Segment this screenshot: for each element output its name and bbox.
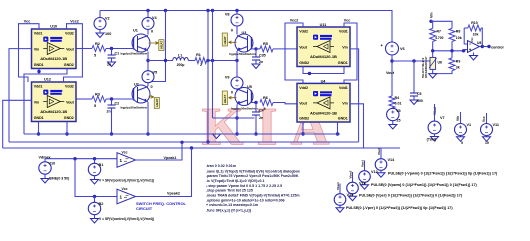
- svg-text:NTCG20WH473J1?: NTCG20WH473J1?: [425, 56, 428, 78]
- svg-text:V12: V12: [371, 170, 378, 174]
- svg-text:HEAT: HEAT: [223, 95, 227, 103]
- svg-text:C5: C5: [417, 92, 422, 96]
- svg-text:GND2: GND2: [64, 116, 74, 120]
- resistor R10: [464, 27, 468, 29]
- svg-text:.func SF(x,y,z) {if (x<1,y,z): .func SF(x,y,z) {if (x<1,y,z)}: [206, 208, 252, 212]
- voltage source V5: [142, 71, 154, 83]
- wire U10 GND loop: [24, 69, 39, 135]
- svg-text:.param Tinit=75 Vpwm=2 Vper=5: .param Tinit=75 Vpwm=2 Vper=5 Fsw1=50K F…: [206, 174, 299, 178]
- wire Vcc2 to U11 Vdd2: [285, 23, 303, 83]
- svg-text:control: control: [491, 45, 504, 49]
- wire U6 R9 bottom to gnd: [433, 69, 452, 73]
- svg-text:Vout: Vout: [386, 71, 395, 75]
- svg-text:GND1: GND1: [34, 63, 44, 67]
- svg-text:5: 5: [94, 54, 96, 58]
- svg-text:IrgpIpc50wStwhrm: IrgpIpc50wStwhrm: [121, 106, 148, 110]
- ground opamp: [473, 53, 475, 56]
- svg-text:PULSE(0 {Vper} 0 {1/(2*Fsw2)}: PULSE(0 {Vper} 0 {1/(2*Fsw2)} {1/(2*Fsw2…: [359, 193, 463, 197]
- svg-text:HEAT: HEAT: [160, 41, 164, 49]
- svg-text:R6: R6: [263, 96, 268, 100]
- wire U11 Vin feedback: [350, 49, 359, 142]
- svg-text:2: 2: [200, 63, 202, 67]
- svg-text:Vin: Vin: [342, 45, 348, 49]
- svg-text:Vout: Vout: [299, 45, 308, 49]
- voltage source V9: [231, 77, 243, 89]
- wire divider node: [432, 42, 434, 58]
- svg-text:C4: C4: [259, 109, 264, 113]
- voltage source V3: [387, 108, 399, 120]
- svg-text:Vcc: Vcc: [344, 19, 351, 23]
- svg-text:ADuM4120-1B: ADuM4120-1B: [310, 110, 337, 115]
- svg-text:CIRCUIT: CIRCUIT: [136, 206, 153, 211]
- svg-text:5: 5: [264, 107, 266, 111]
- svg-text:U10: U10: [50, 25, 57, 29]
- svg-text:Vdd1: Vdd1: [34, 32, 43, 36]
- thermistor U6: [430, 57, 436, 69]
- svg-text:R1: R1: [196, 53, 201, 57]
- svg-text:15: 15: [485, 141, 489, 145]
- svg-text:C3: C3: [259, 54, 264, 58]
- svg-text:SINE(0 3 50): SINE(0 3 50): [49, 176, 69, 180]
- capacitor C4: [255, 103, 257, 113]
- svg-text:.meas TRAN deltaT FIND V(Topd): .meas TRAN deltaT FIND V(Topd)-V(Tinitia…: [206, 194, 300, 198]
- svg-text:B1: B1: [99, 163, 104, 167]
- svg-text:Vth: Vth: [456, 116, 460, 121]
- svg-text:.options gmin=1e-10 abstol=1e-: .options gmin=1e-10 abstol=1e-10 reltol=…: [206, 199, 285, 203]
- svg-text:Vout: Vout: [66, 47, 75, 51]
- svg-text:Vdd2: Vdd2: [65, 85, 74, 89]
- svg-text:IrgpIpc50wStwhrm: IrgpIpc50wStwhrm: [231, 106, 258, 110]
- svg-text:C2: C2: [115, 102, 120, 106]
- wire U12 GND pins to bus: [38, 122, 40, 135]
- svg-text:5: 5: [461, 141, 463, 145]
- wire R2 to U1 gate: [106, 48, 134, 50]
- wire U12 Vin feedback: [3, 100, 32, 148]
- voltage source V2: [99, 11, 101, 18]
- svg-text:0: 0: [231, 91, 233, 95]
- voltage source V8: [236, 11, 238, 15]
- wire Vout to thermal block: [392, 60, 430, 62]
- resistor R3: [76, 98, 92, 100]
- wire R3 to U2 gate: [106, 98, 134, 100]
- svg-text:ADuM4120-1B: ADuM4120-1B: [40, 56, 67, 61]
- svg-text:Vcc: Vcc: [470, 37, 474, 42]
- svg-text:Vdd1: Vdd1: [339, 86, 348, 90]
- wire U4 GND pins to bus: [302, 122, 304, 134]
- svg-text:V2: V2: [105, 17, 110, 21]
- svg-text:V = SF(V(control),V(Vmr1),V(Vm: V = SF(V(control),V(Vmr1),V(Vmr1)): [99, 179, 154, 183]
- wire Vcc2 to U10 Vdd2: [64, 24, 83, 82]
- heat tag U2: [149, 96, 154, 99]
- wire L1 to R1: [188, 60, 195, 62]
- resistor R2: [76, 48, 92, 50]
- wire feedback bus A: [9, 141, 359, 143]
- wire R1 to right midpoint: [207, 60, 237, 62]
- svg-text:V10: V10: [49, 162, 56, 166]
- svg-text:200µ: 200µ: [177, 63, 185, 67]
- svg-text:Vdd1: Vdd1: [339, 30, 348, 34]
- node Vout: [390, 59, 393, 62]
- svg-text:4.700: 4.700: [435, 36, 443, 40]
- wire Vcc to U10 Vdd1: [19, 24, 40, 82]
- svg-text:Vdd1: Vdd1: [34, 85, 43, 89]
- svg-text:V6: V6: [400, 47, 405, 51]
- resistor R6: [250, 102, 256, 104]
- wire bootstrap return: [213, 117, 255, 119]
- wire vertical bus A: [207, 11, 209, 143]
- capacitor C2: [111, 99, 113, 105]
- svg-text:R5: R5: [263, 42, 268, 46]
- svg-text:B2: B2: [99, 202, 104, 206]
- svg-text:GND2: GND2: [299, 116, 309, 120]
- svg-text:GND1: GND1: [338, 61, 348, 65]
- svg-text:Vbw1: Vbw1: [336, 182, 340, 190]
- svg-text:2n: 2n: [259, 60, 263, 64]
- svg-text:PULSE(0 {-Vpwm} 0 {1/(2*Fsw1)}: PULSE(0 {-Vpwm} 0 {1/(2*Fsw1)} {1/(2*Fsw…: [388, 171, 498, 175]
- svg-text:25: 25: [397, 119, 401, 123]
- svg-text:Vcc2: Vcc2: [70, 19, 79, 23]
- svg-text:Vcc: Vcc: [122, 187, 128, 191]
- wire R5 to U11 Vout: [273, 48, 297, 50]
- capacitor C1: [111, 49, 113, 56]
- svg-text:R8: R8: [456, 30, 461, 34]
- heat tag U1: [149, 42, 159, 45]
- node left midpoint: [146, 59, 149, 62]
- node Vin: [429, 20, 432, 23]
- wire midpoint load branch: [148, 60, 173, 62]
- svg-text:V = SF(V(control),V(Vmr2),V(Vm: V = SF(V(control),V(Vmr2),V(Vmr4)): [99, 217, 154, 221]
- wire U2 emitter to gnd bus: [147, 102, 149, 134]
- svg-text:V7: V7: [440, 116, 445, 120]
- wire top +100V rail: [100, 11, 392, 43]
- wire Vdmax to buffer 1: [45, 159, 117, 160]
- resistor R8: [449, 28, 455, 41]
- wire U4 Vin feedback: [350, 104, 364, 148]
- resistor R9: [449, 58, 455, 71]
- wire gnd bus: [24, 133, 340, 135]
- svg-text:10k: 10k: [473, 33, 479, 37]
- resistor R5: [251, 48, 256, 50]
- heat tag U3: [229, 41, 237, 44]
- svg-text:0.01: 0.01: [395, 102, 402, 106]
- svg-text:U1: U1: [133, 29, 138, 33]
- svg-text:2n: 2n: [259, 116, 263, 120]
- svg-text:Vout: Vout: [66, 100, 75, 104]
- wire U5 emitter to gnd bus: [236, 105, 238, 135]
- svg-text:PULSE(0 {Vpwm} 0 {1/(2*Fsw1)}: PULSE(0 {Vpwm} 0 {1/(2*Fsw1)} {1/(2*Fsw1…: [371, 183, 478, 187]
- svg-text:Vpeak2: Vpeak2: [167, 192, 180, 196]
- wire rail drop x165: [150, 11, 166, 82]
- svg-text:.save I(L1) V(Topd) V(Tinitial: .save I(L1) V(Topd) V(Tinitial) I(V6) V(…: [206, 169, 300, 173]
- voltage source V6: [386, 42, 399, 55]
- svg-text:100: 100: [105, 32, 111, 36]
- svg-text:Vout: Vout: [299, 102, 308, 106]
- ground bus arrow: [213, 134, 221, 139]
- svg-text:Vtw2: Vtw2: [377, 148, 381, 155]
- svg-text:R3: R3: [95, 92, 100, 96]
- svg-text:L1: L1: [178, 53, 182, 57]
- svg-text:Vdd2: Vdd2: [299, 30, 308, 34]
- svg-text:V3: V3: [396, 109, 401, 113]
- svg-text:Vpeak1: Vpeak1: [164, 156, 177, 160]
- svg-text:V5: V5: [153, 71, 158, 75]
- svg-text:0: 0: [151, 85, 153, 89]
- svg-text:.step param Tinit list 25 125: .step param Tinit list 25 125: [206, 189, 253, 193]
- svg-text:V11: V11: [493, 123, 500, 127]
- svg-text:ADuM4120-1B: ADuM4120-1B: [310, 54, 337, 59]
- svg-text:+ cshunt=1e-13 maxstep=0.1m: + cshunt=1e-13 maxstep=0.1m: [206, 203, 258, 207]
- svg-text:V15: V15: [347, 193, 354, 197]
- svg-text:Vbw2: Vbw2: [349, 170, 353, 178]
- svg-text:2n: 2n: [107, 110, 111, 114]
- svg-text:{Tdel}: {Tdel}: [427, 138, 437, 142]
- svg-text:HEAT: HEAT: [155, 98, 159, 106]
- svg-text:U6: U6: [438, 61, 443, 65]
- svg-text:5: 5: [264, 54, 266, 58]
- svg-text:.tran 0 0.02 0.01m: .tran 0 0.02 0.01m: [206, 164, 236, 168]
- svg-text:Vcc: Vcc: [122, 151, 128, 155]
- behavioral source B1: [94, 159, 96, 164]
- svg-text:Vin: Vin: [34, 47, 40, 51]
- svg-text:ADuM4120-1B: ADuM4120-1B: [40, 109, 67, 114]
- heat tag U5: [229, 96, 237, 99]
- wire U11 GND pins: [303, 67, 344, 74]
- capacitor C5: [413, 61, 415, 93]
- svg-text:0: 0: [231, 29, 233, 33]
- svg-text:V8: V8: [225, 13, 230, 17]
- svg-text:R7: R7: [437, 30, 442, 34]
- svg-text:R9: R9: [456, 60, 461, 64]
- svg-text:500: 500: [417, 99, 423, 103]
- svg-text:GND2: GND2: [299, 61, 309, 65]
- svg-text:V16: V16: [359, 182, 366, 186]
- wire to buffer 2: [75, 159, 117, 197]
- wire Vin rail: [431, 21, 452, 28]
- voltage source V4: [147, 11, 149, 18]
- resistor R4: [389, 96, 395, 108]
- svg-text:V14: V14: [388, 158, 396, 162]
- svg-text:.ic V(Topd)=Tinit I(L1)=0 V(DV: .ic V(Topd)=Tinit I(L1)=0 V(DV)=0.1: [206, 179, 264, 183]
- svg-text:C1: C1: [115, 52, 120, 56]
- wire Vcc to U11 Vdd1: [344, 23, 357, 83]
- svg-text:GND1: GND1: [338, 116, 348, 120]
- capacitor C3: [255, 49, 257, 57]
- node rail junctions: [146, 9, 149, 12]
- resistor R7: [430, 28, 436, 41]
- svg-text:;.step param Vpwm list 0 0.5 1: ;.step param Vpwm list 0 0.5 1 1.75 2 2.…: [206, 184, 282, 188]
- wire feedback bus B: [3, 147, 400, 149]
- wire U1 emitter to midpoint: [147, 52, 149, 71]
- svg-text:0: 0: [151, 30, 153, 34]
- svg-text:2n: 2n: [107, 63, 111, 67]
- svg-text:5: 5: [94, 104, 96, 108]
- svg-text:R2: R2: [95, 42, 100, 46]
- svg-text:Vin: Vin: [342, 102, 348, 106]
- svg-text:PULSE(0 {-Vper} 0 {1/(2*Fsw2)}: PULSE(0 {-Vper} 0 {1/(2*Fsw2)} {1/(2*Fsw…: [346, 206, 453, 210]
- svg-text:V1: V1: [467, 123, 472, 127]
- svg-text:Vin: Vin: [34, 100, 40, 104]
- svg-text:10k: 10k: [456, 36, 462, 40]
- wire R6 to U4 Vout: [273, 103, 297, 104]
- svg-text:IrgpIpc50wStwhrm: IrgpIpc50wStwhrm: [121, 52, 148, 56]
- svg-text:Vtw1: Vtw1: [361, 160, 365, 167]
- svg-text:U12: U12: [44, 78, 51, 82]
- svg-text:Vcc: Vcc: [24, 19, 31, 23]
- svg-text:Vdd2: Vdd2: [65, 32, 74, 36]
- svg-text:V9: V9: [225, 76, 230, 80]
- svg-text:GND1: GND1: [34, 116, 44, 120]
- svg-text:IrgpIpc50wStwhrm: IrgpIpc50wStwhrm: [229, 52, 256, 56]
- wire vertical bus B: [212, 11, 214, 119]
- wire opamp output to control: [480, 46, 490, 48]
- wire U3 emitter to midpoint: [236, 51, 238, 77]
- svg-text:Vin: Vin: [430, 12, 434, 18]
- svg-text:GND2: GND2: [64, 63, 74, 67]
- inductor L1: [173, 58, 177, 61]
- svg-text:Vcc: Vcc: [482, 116, 486, 122]
- svg-text:Vcc2: Vcc2: [290, 19, 299, 23]
- wire Vpeak2: [136, 148, 192, 197]
- resistor R1: [195, 58, 207, 64]
- wire Vpeak1: [136, 142, 183, 160]
- svg-text:3k: 3k: [456, 66, 460, 70]
- svg-text:R4: R4: [395, 96, 400, 100]
- wire U10 Vin feedback: [9, 49, 32, 142]
- behavioral source B2: [94, 197, 96, 203]
- svg-text:Vdd2: Vdd2: [299, 86, 308, 90]
- op-amp U8: [468, 41, 480, 53]
- svg-text:U8: U8: [477, 41, 481, 45]
- svg-text:R10: R10: [471, 21, 477, 25]
- svg-text:HEAT: HEAT: [223, 36, 227, 44]
